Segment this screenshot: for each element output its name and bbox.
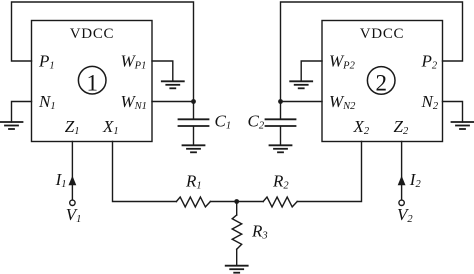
svg-text:Z2: Z2 xyxy=(394,117,409,137)
wire WP2 to ground xyxy=(301,61,322,81)
svg-text:1: 1 xyxy=(86,70,98,95)
ground (R3) xyxy=(226,266,248,273)
svg-text:N2: N2 xyxy=(421,92,439,112)
svg-text:R3: R3 xyxy=(251,222,268,242)
wire R2 right and up to X2 xyxy=(297,142,361,202)
resistor R3 zigzag (vertical) xyxy=(232,215,242,249)
resistor R2 zigzag xyxy=(263,197,297,207)
terminal circle V1 xyxy=(70,200,75,205)
wire R3 to ground xyxy=(236,249,238,265)
wire WN2 to node C xyxy=(281,101,323,103)
wire C1 to ground xyxy=(193,127,195,145)
svg-text:C1: C1 xyxy=(215,112,232,132)
ground (N2) xyxy=(452,122,474,129)
designator circle 2 xyxy=(367,67,395,95)
svg-text:R2: R2 xyxy=(272,172,289,192)
svg-text:I1: I1 xyxy=(55,170,67,190)
wire P2 feedback loop (P2 right, up, across top, down to node C) xyxy=(281,2,463,102)
ground (C1) xyxy=(183,145,205,152)
wire node C down to C2 xyxy=(280,102,282,119)
node A junction dot xyxy=(191,99,196,104)
wire X1 down and right to R1 xyxy=(113,142,177,202)
wire WN1 to node A xyxy=(152,101,194,103)
terminal circle V2 xyxy=(399,200,404,205)
wire Z2 down to terminal V2 xyxy=(401,142,403,200)
svg-text:WN1: WN1 xyxy=(121,92,147,112)
VDCC block U2 box xyxy=(322,21,443,142)
capacitor C1 xyxy=(179,119,209,126)
ground (WP1) xyxy=(162,81,184,88)
svg-text:VDCC: VDCC xyxy=(360,26,404,42)
wire node B down to R3 xyxy=(236,202,238,216)
resistor R1 zigzag xyxy=(176,197,210,207)
wire node A down to C1 xyxy=(193,102,195,119)
svg-text:V2: V2 xyxy=(397,205,413,225)
VDCC block U1 box xyxy=(32,21,153,142)
svg-text:WP1: WP1 xyxy=(121,52,147,72)
svg-text:V1: V1 xyxy=(66,205,82,225)
svg-text:2: 2 xyxy=(375,70,387,95)
wire WP1 to ground xyxy=(152,61,173,81)
capacitor C2 xyxy=(266,119,296,126)
wire C2 to ground xyxy=(280,127,282,145)
wire Z1 down to terminal V1 xyxy=(71,142,73,200)
svg-text:R1: R1 xyxy=(185,172,202,192)
wire N1 to ground xyxy=(12,102,32,123)
svg-text:WP2: WP2 xyxy=(329,52,356,72)
wire P1 feedback loop (P1 left, up, across top, down to node A) xyxy=(12,2,194,102)
svg-text:N1: N1 xyxy=(38,92,56,112)
svg-text:VDCC: VDCC xyxy=(70,26,114,42)
svg-text:P2: P2 xyxy=(421,52,438,72)
ground (C2) xyxy=(270,145,292,152)
svg-text:Z1: Z1 xyxy=(65,117,80,137)
ground (N1) xyxy=(1,122,23,129)
wire N2 to ground xyxy=(443,102,463,123)
ground (WP2) xyxy=(290,81,312,88)
svg-text:P1: P1 xyxy=(38,52,55,72)
svg-text:I2: I2 xyxy=(409,170,422,190)
node B junction dot xyxy=(234,199,239,204)
designator circle 1 xyxy=(78,66,106,94)
svg-text:X1: X1 xyxy=(102,117,119,137)
wire R1 to node B xyxy=(210,201,236,203)
wire node B to R2 xyxy=(237,201,264,203)
current arrow I2 (pointing up) xyxy=(398,176,406,186)
node C junction dot xyxy=(278,99,283,104)
svg-text:WN2: WN2 xyxy=(329,92,356,112)
svg-text:C2: C2 xyxy=(248,112,265,132)
current arrow I1 (pointing up) xyxy=(69,176,77,186)
svg-text:X2: X2 xyxy=(353,117,370,137)
